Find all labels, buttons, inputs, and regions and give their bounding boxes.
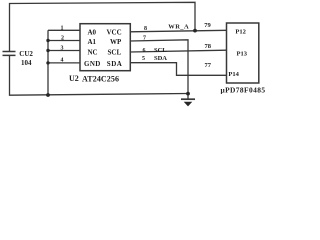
svg-text:P13: P13 bbox=[237, 51, 248, 58]
svg-text:7: 7 bbox=[143, 35, 146, 41]
svg-text:U2: U2 bbox=[69, 74, 79, 83]
svg-text:A1: A1 bbox=[88, 38, 97, 46]
svg-text:77: 77 bbox=[205, 62, 212, 69]
svg-text:μPD78F0485: μPD78F0485 bbox=[221, 86, 266, 95]
svg-text:P12: P12 bbox=[235, 28, 245, 35]
svg-text:SCL: SCL bbox=[108, 49, 122, 57]
svg-text:A0: A0 bbox=[88, 29, 97, 37]
svg-text:3: 3 bbox=[61, 46, 64, 52]
svg-text:2: 2 bbox=[61, 35, 64, 41]
svg-text:CU2: CU2 bbox=[19, 50, 33, 58]
svg-text:GND: GND bbox=[84, 60, 101, 68]
svg-text:1: 1 bbox=[61, 25, 64, 31]
svg-text:78: 78 bbox=[205, 43, 212, 50]
svg-text:79: 79 bbox=[204, 22, 211, 29]
svg-text:4: 4 bbox=[61, 58, 64, 64]
svg-text:SCL: SCL bbox=[154, 47, 167, 54]
svg-text:VCC: VCC bbox=[107, 29, 122, 37]
svg-text:SDA: SDA bbox=[107, 60, 123, 68]
svg-text:104: 104 bbox=[21, 59, 32, 67]
svg-text:P14: P14 bbox=[228, 71, 239, 78]
svg-text:AT24C256: AT24C256 bbox=[82, 75, 119, 84]
svg-text:WR_A: WR_A bbox=[168, 23, 189, 30]
svg-text:5: 5 bbox=[142, 56, 145, 62]
svg-text:SDA: SDA bbox=[154, 55, 167, 62]
svg-text:WP: WP bbox=[110, 38, 122, 46]
svg-text:NC: NC bbox=[88, 49, 98, 57]
svg-text:6: 6 bbox=[143, 48, 146, 54]
svg-text:8: 8 bbox=[144, 26, 147, 32]
